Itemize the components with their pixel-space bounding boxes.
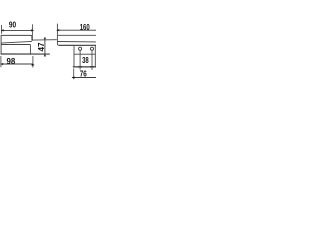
dim line 76 bbox=[72, 77, 96, 79]
svg-text:76: 76 bbox=[80, 68, 87, 78]
dim line 38 and plate bottom edge bbox=[73, 66, 96, 68]
left view lower line bbox=[1, 44, 30, 46]
dim 98 right extension line bbox=[32, 56, 34, 68]
svg-text:38: 38 bbox=[82, 55, 89, 65]
dim 38 left arrow bbox=[79, 66, 82, 68]
dim 98 left arrow bbox=[0, 63, 3, 65]
background bbox=[0, 0, 96, 96]
mounting plate right edge bbox=[94, 45, 96, 67]
left view right lower edge bbox=[29, 45, 31, 54]
dim line 90 bbox=[2, 29, 33, 31]
dim 98 left extension line bbox=[0, 56, 2, 67]
right view slab bottom edge bbox=[59, 44, 96, 46]
dim 90 right extension line bbox=[31, 24, 33, 40]
mounting plate feature line bbox=[74, 53, 95, 55]
svg-text:160: 160 bbox=[80, 22, 90, 32]
dim 38 right arrow bbox=[90, 66, 93, 68]
right view slab inner line bbox=[57, 41, 96, 43]
left view bottom edge plus 47 bottom extension line bbox=[1, 53, 50, 55]
mounting hole left bbox=[79, 47, 82, 50]
dim 38 right extension line bbox=[91, 50, 93, 70]
mounting plate left edge bbox=[73, 45, 75, 67]
dim 90 right arrow bbox=[31, 29, 34, 31]
dim 47 top extension line bbox=[32, 39, 56, 41]
left view outline (side view of shelf) bbox=[1, 35, 32, 53]
dim 90 left extension line bbox=[1, 25, 3, 34]
mounting hole right bbox=[90, 47, 93, 50]
svg-text:90: 90 bbox=[9, 20, 16, 30]
left view rim inner line bbox=[1, 41, 32, 43]
dim line 47 vertical bbox=[44, 37, 46, 56]
svg-text:98: 98 bbox=[6, 56, 15, 66]
dim 47 top arrow bbox=[44, 38, 46, 41]
dim 76 extension line bbox=[73, 68, 75, 79]
dim 90 left arrow bbox=[1, 29, 4, 31]
dim line 160 bbox=[58, 29, 97, 31]
dim 160 left arrow bbox=[56, 29, 59, 31]
dim 38 left extension line bbox=[79, 50, 81, 69]
right view slab left edge with rounded bottom corner bbox=[57, 24, 59, 46]
dim 76 left arrow bbox=[72, 76, 75, 78]
right view slab top edge bbox=[57, 34, 96, 36]
dim 47 bottom arrow bbox=[44, 54, 46, 57]
dim 98 right arrow bbox=[32, 64, 35, 66]
dim line 98 bbox=[1, 63, 33, 65]
svg-text:47: 47 bbox=[36, 42, 46, 51]
